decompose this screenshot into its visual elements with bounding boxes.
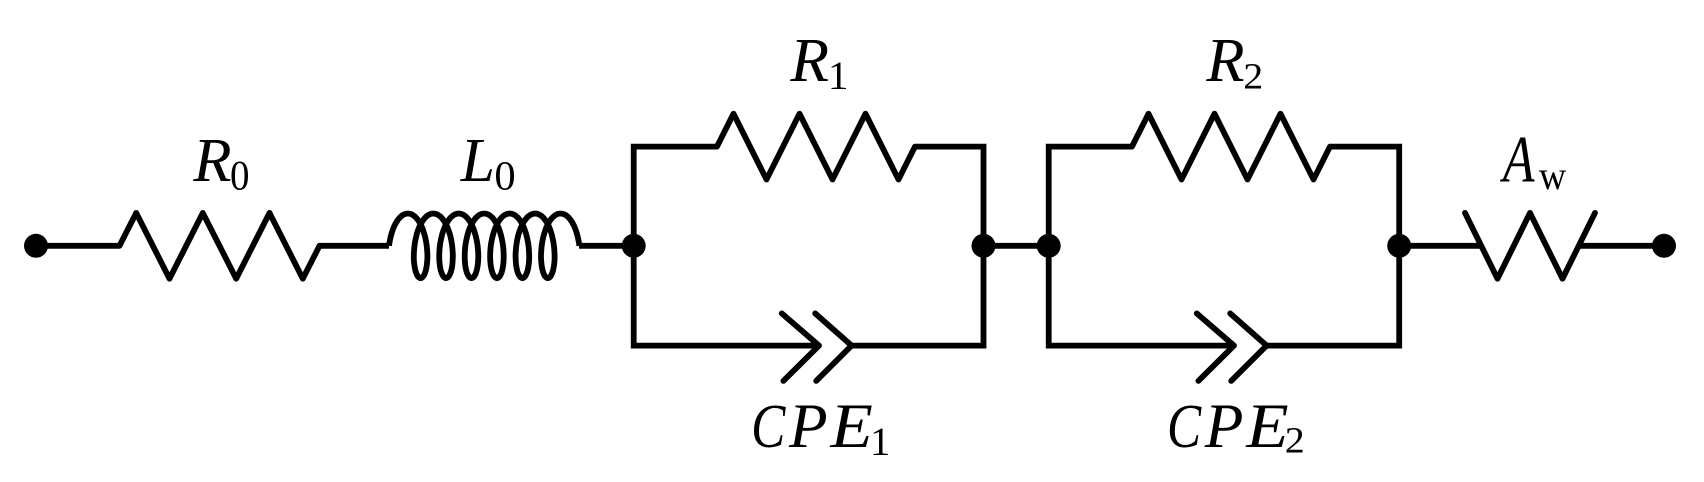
CPE1 chevron b — [815, 313, 851, 381]
wire — [320, 243, 390, 249]
box2 left side wires — [1049, 147, 1234, 346]
node right terminal — [1652, 234, 1676, 258]
label CPE1 — [754, 405, 888, 455]
box1 right side wires — [852, 147, 984, 346]
node B (box1 right) — [972, 234, 996, 258]
box2 right side wires — [1267, 147, 1400, 346]
inductor L0 coil — [389, 214, 579, 279]
wire — [1399, 243, 1481, 249]
label Aw — [1500, 138, 1566, 190]
resistor R0 — [120, 213, 320, 279]
wire — [579, 243, 634, 249]
wire — [1579, 243, 1664, 249]
CPE2 chevron b — [1230, 313, 1266, 381]
CPE1 chevron a — [782, 313, 819, 381]
wire link — [984, 243, 1049, 249]
box1 left side wires — [634, 147, 819, 346]
node C (box2 left) — [1037, 234, 1061, 258]
label L0 — [460, 140, 514, 190]
warburg Aw — [1465, 213, 1595, 279]
label R1 — [790, 40, 846, 89]
resistor R2 — [1132, 114, 1330, 180]
node left terminal — [24, 234, 48, 258]
node D (box2 right) — [1387, 234, 1411, 258]
CPE2 chevron a — [1197, 313, 1234, 381]
wire — [36, 243, 120, 249]
node A (after L0) — [622, 234, 646, 258]
label R2 — [1206, 40, 1261, 88]
label CPE2 — [1170, 405, 1303, 452]
label R0 — [193, 140, 248, 190]
resistor R1 — [717, 114, 915, 180]
